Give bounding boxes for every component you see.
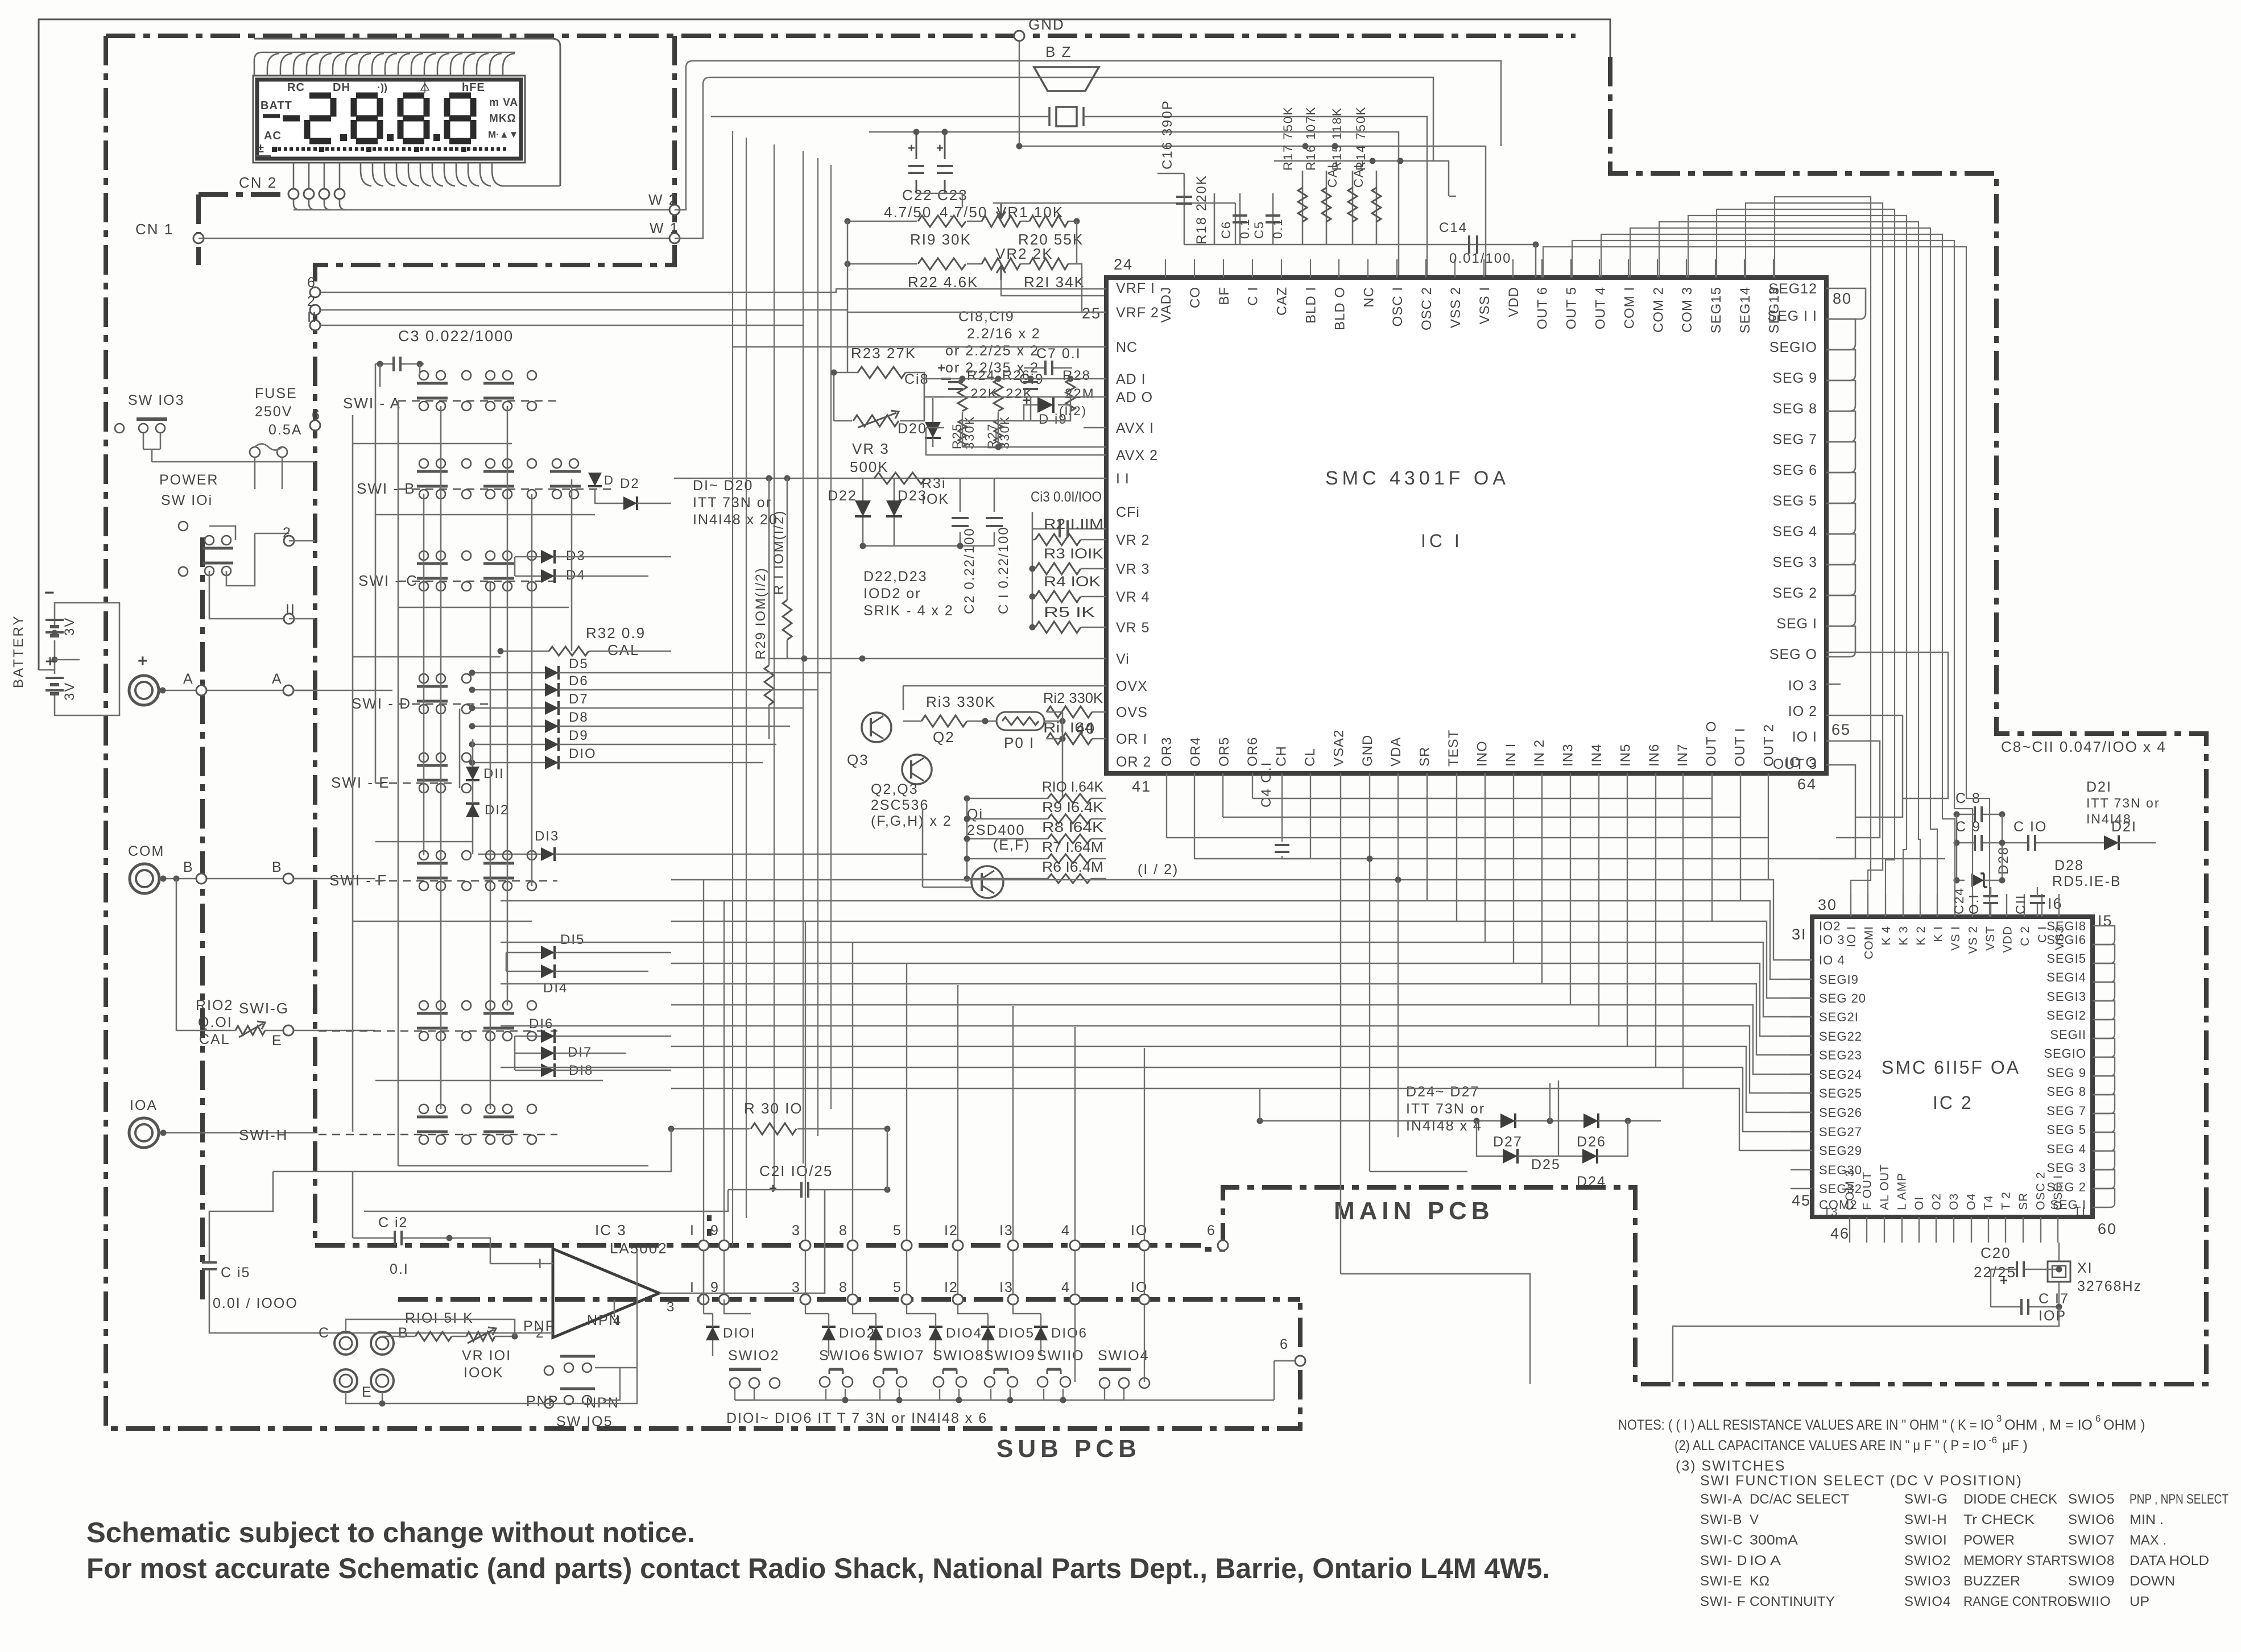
- svg-text:SEGI9: SEGI9: [1819, 972, 1859, 987]
- svg-text:K 2: K 2: [1915, 926, 1928, 946]
- wire bus y310 C16 top: [1157, 173, 1184, 188]
- svg-text:BLD O: BLD O: [1332, 287, 1347, 330]
- svg-text:-6: -6: [1988, 1435, 1997, 1446]
- border main pcb: [1201, 57, 2206, 1384]
- svg-text:SW IOi: SW IOi: [161, 492, 213, 508]
- svg-text:SEG 2: SEG 2: [1772, 585, 1817, 601]
- svg-text:D23: D23: [898, 488, 927, 504]
- svg-text:SWIO6: SWIO6: [2068, 1512, 2115, 1527]
- svg-text:CO: CO: [1188, 287, 1203, 308]
- svg-text:300mA: 300mA: [1750, 1533, 1798, 1548]
- wire I1 row: [674, 478, 1106, 479]
- diode D8: [545, 719, 559, 733]
- chip IC2 SMC 6115F 0A box: [1812, 917, 2093, 1217]
- resistor R17 750K: [1302, 171, 1304, 245]
- svg-text:A: A: [183, 671, 194, 687]
- svg-text:Vi: Vi: [1116, 651, 1130, 667]
- svg-text:C14: C14: [1439, 220, 1467, 235]
- svg-text:RIOI 5I K: RIOI 5I K: [405, 1310, 474, 1326]
- svg-text:W 2: W 2: [648, 191, 678, 208]
- border sub pcb: [398, 1297, 1300, 1302]
- wire VRF rails: [847, 221, 1077, 372]
- svg-text:IC I: IC I: [1421, 531, 1463, 551]
- svg-text:BF: BF: [1217, 287, 1232, 305]
- svg-text:OSC 2: OSC 2: [2035, 1171, 2048, 1210]
- svg-text:COM 3: COM 3: [1680, 287, 1695, 333]
- svg-text:C I: C I: [2036, 926, 2049, 943]
- svg-text:P0 I: P0 I: [1004, 734, 1035, 751]
- pot VR3 500K: [853, 415, 899, 427]
- svg-text:CII: CII: [2013, 895, 2028, 914]
- diode D13: [541, 847, 555, 861]
- svg-text:AVX 2: AVX 2: [1116, 448, 1158, 463]
- svg-text:R22 4.6K: R22 4.6K: [908, 274, 978, 291]
- wire bus y283 to R15 R14 tops: [1274, 161, 1456, 196]
- svg-text:45: 45: [1792, 1192, 1811, 1209]
- svg-text:SWIO2: SWIO2: [1904, 1553, 1951, 1568]
- svg-text:3I: 3I: [1792, 926, 1807, 943]
- svg-text:GND: GND: [1028, 16, 1065, 33]
- svg-text:46: 46: [1830, 1225, 1850, 1242]
- svg-text:3: 3: [1996, 1413, 2002, 1424]
- svg-text:SEG 8: SEG 8: [1772, 401, 1817, 417]
- svg-text:5: 5: [893, 1223, 902, 1239]
- CN2 connector: [288, 189, 299, 199]
- diode D19: [1037, 397, 1053, 413]
- potentiometer VR2: [982, 258, 1020, 270]
- resistor R22 4.6K: [847, 263, 1077, 265]
- svg-text:OUT 5: OUT 5: [1564, 287, 1580, 329]
- svg-text:CN 1: CN 1: [135, 221, 173, 238]
- svg-text:C i5: C i5: [221, 1265, 250, 1281]
- svg-text:ITT 73N or: ITT 73N or: [693, 495, 772, 511]
- svg-text:BUZZER: BUZZER: [1963, 1574, 2020, 1589]
- svg-text:2SD400: 2SD400: [967, 822, 1025, 838]
- svg-text:OVS: OVS: [1116, 705, 1148, 721]
- svg-text:VRF 2: VRF 2: [1116, 305, 1159, 321]
- svg-text:IN3: IN3: [1561, 744, 1576, 767]
- IC1 right IO wires: [1826, 652, 1948, 798]
- svg-text:SR: SR: [2017, 1193, 2030, 1210]
- svg-text:Schematic subject to change wi: Schematic subject to change without noti…: [86, 1517, 695, 1549]
- left mid vertical bus: [732, 131, 733, 1245]
- svg-text:TEST: TEST: [1446, 730, 1461, 767]
- svg-text:SEGI5: SEGI5: [2046, 951, 2086, 966]
- svg-text:I2: I2: [944, 1223, 958, 1239]
- svg-text:OHM ): OHM ): [2103, 1417, 2145, 1433]
- wire matrix verticals: [352, 415, 354, 1132]
- svg-text:R2I 34K: R2I 34K: [1024, 274, 1085, 291]
- svg-text:AVX I: AVX I: [1116, 420, 1154, 436]
- svg-text:80: 80: [1833, 290, 1852, 307]
- svg-text:3: 3: [667, 1299, 675, 1315]
- svg-text:OR5: OR5: [1217, 737, 1232, 767]
- svg-text:OUT O: OUT O: [1704, 721, 1719, 767]
- crystal X1 32768Hz: [2048, 1261, 2070, 1282]
- diode D18: [541, 1063, 555, 1077]
- svg-text:65: 65: [1831, 721, 1851, 738]
- diode D4: [541, 569, 555, 583]
- svg-text:IN4I48 x 20: IN4I48 x 20: [693, 512, 778, 528]
- svg-text:SWI-H: SWI-H: [1904, 1512, 1948, 1527]
- svg-text:SEGI8: SEGI8: [2046, 919, 2086, 933]
- svg-text:OUT I: OUT I: [1733, 727, 1748, 767]
- capacitor C17 10P: [2020, 1299, 2023, 1315]
- svg-text:+: +: [937, 361, 946, 376]
- svg-text:SEG I: SEG I: [1776, 616, 1817, 632]
- svg-text:NC: NC: [1361, 287, 1376, 308]
- wires GND VDA verticals lower: [1370, 859, 1467, 1171]
- IC1 right SEG stub loops: [1826, 288, 1866, 319]
- resistor R20 55K: [1029, 216, 1068, 227]
- resistor R14 750K: [1376, 171, 1378, 245]
- svg-text:OSC 2: OSC 2: [1419, 287, 1434, 330]
- svg-text:or 2.2/25 x 2: or 2.2/25 x 2: [945, 343, 1039, 359]
- svg-text:SUB PCB: SUB PCB: [997, 1435, 1141, 1463]
- switch row SW1-G: [319, 1030, 557, 1032]
- svg-text:0.01/100: 0.01/100: [1449, 251, 1511, 266]
- svg-text:VR 3: VR 3: [1116, 561, 1150, 577]
- svg-text:C I: C I: [1246, 287, 1261, 306]
- svg-text:SEG23: SEG23: [1819, 1048, 1862, 1062]
- svg-text:Ri2 330K: Ri2 330K: [1043, 690, 1103, 706]
- svg-text:RD5.IE-B: RD5.IE-B: [2052, 873, 2122, 889]
- svg-text:DIO: DIO: [569, 746, 597, 761]
- wires AD1/AD0 rows: [924, 378, 1106, 380]
- svg-text:4: 4: [1061, 1223, 1070, 1239]
- svg-text:DOWN: DOWN: [2130, 1574, 2175, 1589]
- resistor R31 10K: [874, 473, 925, 484]
- svg-text:D22: D22: [828, 488, 857, 504]
- svg-text:POWER: POWER: [1963, 1533, 2015, 1548]
- svg-text:SEG 9: SEG 9: [1772, 370, 1817, 386]
- svg-text:2SC536: 2SC536: [871, 797, 929, 813]
- svg-text:IN7: IN7: [1675, 744, 1690, 767]
- resistor R102 0.01 CAL: [176, 879, 235, 1030]
- svg-text:COM 3: COM 3: [1843, 1169, 1857, 1210]
- svg-text:MKΩ: MKΩ: [489, 113, 516, 125]
- diode DIO6: [1034, 1327, 1048, 1340]
- svg-text:R17 750K: R17 750K: [1281, 106, 1295, 171]
- svg-text:DATA HOLD: DATA HOLD: [2130, 1553, 2209, 1568]
- svg-text:IO I: IO I: [1792, 729, 1817, 745]
- svg-text:Tr CHECK: Tr CHECK: [1963, 1512, 2035, 1527]
- svg-text:C22: C22: [902, 187, 933, 204]
- svg-text:22K: 22K: [970, 386, 998, 401]
- svg-text:D2: D2: [620, 476, 640, 491]
- svg-text:IOA: IOA: [130, 1098, 158, 1113]
- bus horizontals mid page: [1252, 798, 1712, 799]
- svg-text:FUSE: FUSE: [255, 386, 297, 401]
- svg-text:D4: D4: [566, 568, 586, 583]
- svg-text:32768Hz: 32768Hz: [2077, 1278, 2142, 1294]
- svg-text:Ri3 330K: Ri3 330K: [926, 693, 996, 710]
- svg-text:DIODE CHECK: DIODE CHECK: [1963, 1492, 2057, 1507]
- svg-text:XI: XI: [2077, 1260, 2093, 1276]
- svg-text:D3: D3: [566, 548, 586, 564]
- diode D9: [545, 738, 559, 751]
- diode D5: [545, 666, 559, 680]
- svg-text:RIO2: RIO2: [196, 997, 233, 1013]
- svg-text:DIO5: DIO5: [998, 1326, 1035, 1341]
- svg-text:C I 0.22/100: C I 0.22/100: [996, 526, 1011, 614]
- svg-text:B: B: [272, 859, 283, 875]
- svg-text:R16 107K: R16 107K: [1304, 106, 1318, 171]
- svg-text:V: V: [1750, 1512, 1759, 1527]
- svg-text:IN4: IN4: [1589, 744, 1605, 767]
- bus horizontal NC row: [733, 346, 1106, 347]
- capacitor C23: [944, 132, 946, 193]
- svg-text:RC: RC: [287, 81, 305, 94]
- diode D2: [623, 496, 637, 510]
- svg-text:AD I: AD I: [1116, 371, 1146, 387]
- svg-text:I6: I6: [2048, 895, 2063, 912]
- svg-text:DI6: DI6: [529, 1016, 553, 1032]
- svg-text:T3: T3: [1824, 1206, 1838, 1219]
- svg-text:+: +: [769, 1181, 778, 1196]
- svg-text:VRF I: VRF I: [1116, 280, 1155, 296]
- svg-text:SEGII: SEGII: [2050, 1028, 2086, 1042]
- svg-text:DI~ D20: DI~ D20: [693, 478, 753, 494]
- svg-text:SWIO6: SWIO6: [819, 1348, 871, 1364]
- svg-text:C2 0.22/100: C2 0.22/100: [962, 527, 977, 614]
- svg-text:IOD2 or: IOD2 or: [863, 586, 921, 602]
- svg-text:DIOI: DIOI: [723, 1326, 755, 1341]
- svg-text:C IO: C IO: [2013, 819, 2047, 835]
- wire matrix horizontals: [353, 443, 512, 445]
- diode D27: [1500, 1113, 1515, 1128]
- svg-text:IO 4: IO 4: [1819, 953, 1845, 967]
- svg-text:VST: VST: [1984, 926, 1997, 951]
- svg-text:SWIO7: SWIO7: [2068, 1533, 2115, 1548]
- svg-text:0.1: 0.1: [1271, 218, 1285, 239]
- svg-text:D26: D26: [1577, 1134, 1606, 1150]
- svg-text:IO I: IO I: [1845, 926, 1858, 947]
- svg-text:INO: INO: [1474, 740, 1490, 767]
- op-amp IC3 LA5002: [553, 1249, 659, 1338]
- svg-text:C6: C6: [1219, 221, 1233, 239]
- svg-text:DH: DH: [333, 81, 350, 94]
- capacitor C1 0.22/100: [994, 478, 995, 546]
- svg-text:C: C: [319, 1325, 330, 1341]
- svg-text:SWIIO: SWIIO: [1037, 1348, 1085, 1364]
- svg-text:SMC 4301F OA: SMC 4301F OA: [1325, 467, 1510, 489]
- diode D6: [545, 683, 559, 697]
- svg-text:MEMORY START: MEMORY START: [1963, 1553, 2069, 1568]
- svg-text:VSA2: VSA2: [1331, 730, 1346, 767]
- svg-text:VDA: VDA: [1388, 737, 1404, 767]
- svg-text:SEG O: SEG O: [1769, 647, 1817, 663]
- svg-text:SWI- F: SWI- F: [1700, 1594, 1746, 1609]
- svg-text:DII: DII: [483, 766, 505, 781]
- svg-text:0.5A: 0.5A: [268, 422, 302, 438]
- diode D15: [541, 946, 555, 959]
- svg-text:C 2: C 2: [2019, 926, 2032, 946]
- svg-text:IO A: IO A: [1750, 1553, 1781, 1568]
- svg-text:MAX .: MAX .: [2130, 1533, 2166, 1548]
- terminal E2: [371, 1369, 394, 1392]
- svg-text:OSC I: OSC I: [1390, 287, 1405, 326]
- svg-text:For most accurate Schematic (a: For most accurate Schematic (and parts) …: [86, 1552, 1550, 1584]
- svg-text:O3: O3: [1948, 1193, 1961, 1210]
- svg-text:60: 60: [2098, 1220, 2117, 1237]
- svg-text:TI: TI: [2074, 1205, 2086, 1218]
- svg-text:ITT 73N or: ITT 73N or: [2086, 796, 2160, 810]
- svg-text:D24~ D27: D24~ D27: [1406, 1084, 1479, 1100]
- svg-text:SWI FUNCTION SELECT (DC V: SWI FUNCTION SELECT (DC V POSITION): [1700, 1473, 2023, 1489]
- svg-text:IOP: IOP: [2039, 1308, 2066, 1324]
- svg-text:B Z: B Z: [1045, 43, 1072, 60]
- svg-text:IO 3: IO 3: [1819, 933, 1845, 947]
- svg-text:SWI-B: SWI-B: [1700, 1512, 1742, 1527]
- svg-text:+: +: [46, 652, 56, 670]
- svg-text:CONTINUITY: CONTINUITY: [1750, 1594, 1835, 1609]
- svg-text:PNP: PNP: [526, 1393, 559, 1409]
- node W1: [669, 233, 680, 243]
- svg-text:·)): ·)): [377, 82, 387, 93]
- svg-text:D6: D6: [569, 673, 589, 689]
- svg-text:D2I: D2I: [2111, 819, 2137, 835]
- wire Vi row: [769, 658, 1106, 660]
- svg-text:C7 0.I: C7 0.I: [1036, 346, 1081, 362]
- svg-text:PNP , NPN SELECT: PNP , NPN SELECT: [2130, 1492, 2228, 1507]
- svg-text:I3: I3: [999, 1280, 1014, 1295]
- svg-text:C16 390P: C16 390P: [1160, 100, 1175, 169]
- potentiometer VR1: [982, 216, 1020, 227]
- border outer dash-dot: [106, 36, 1300, 1429]
- svg-text:CAZ: CAZ: [1275, 287, 1290, 316]
- svg-text:SEG 5: SEG 5: [1772, 493, 1817, 509]
- svg-text:SEG29: SEG29: [1819, 1144, 1862, 1158]
- svg-text:OUT 3: OUT 3: [1773, 756, 1817, 772]
- svg-text:Q3: Q3: [847, 751, 869, 768]
- svg-text:D2I: D2I: [2086, 779, 2112, 795]
- switch SW105: [560, 1355, 595, 1358]
- pot VR101 100K: [466, 1332, 495, 1341]
- diode D23: [894, 478, 895, 546]
- svg-text:CI8,CI9: CI8,CI9: [958, 309, 1015, 325]
- border display pcb: [106, 34, 1576, 38]
- diode D16: [541, 1029, 555, 1043]
- svg-text:4: 4: [1061, 1280, 1070, 1295]
- svg-text:D5: D5: [569, 656, 589, 672]
- svg-text:IOOK: IOOK: [464, 1365, 504, 1381]
- diode D22: [862, 478, 864, 546]
- svg-text:SEG 5: SEG 5: [2046, 1123, 2086, 1137]
- svg-text:CN 2: CN 2: [239, 174, 277, 191]
- diode D14: [541, 964, 555, 978]
- svg-text:8: 8: [839, 1280, 848, 1295]
- svg-text:SEG I I: SEG I I: [1767, 308, 1817, 324]
- svg-text:MAIN PCB: MAIN PCB: [1334, 1197, 1494, 1225]
- terminal B: [371, 1332, 394, 1355]
- svg-text:D i9: D i9: [1039, 412, 1068, 427]
- wire CN1-W1: [199, 238, 675, 239]
- svg-text:OHM , M = IO: OHM , M = IO: [2004, 1417, 2093, 1433]
- svg-text:T 2: T 2: [2000, 1191, 2013, 1210]
- svg-text:Q.OI: Q.OI: [198, 1015, 233, 1030]
- svg-text:SWIO8: SWIO8: [2068, 1553, 2115, 1568]
- diode DIO5: [981, 1327, 995, 1340]
- svg-text:9: 9: [710, 1223, 720, 1239]
- svg-text:DIO3: DIO3: [886, 1326, 923, 1341]
- svg-text:C24: C24: [1951, 887, 1966, 914]
- svg-text:C I7: C I7: [2039, 1291, 2069, 1307]
- svg-text:SEG 6: SEG 6: [1772, 462, 1817, 478]
- svg-text:SWI-G: SWI-G: [1904, 1492, 1948, 1507]
- svg-text:IO 2: IO 2: [1788, 703, 1817, 719]
- svg-text:2: 2: [307, 293, 316, 309]
- svg-text:D20: D20: [898, 421, 927, 437]
- svg-text:SWI-A: SWI-A: [1700, 1492, 1742, 1507]
- transistor Q3: [862, 713, 891, 742]
- svg-text:C3 0.022/1000: C3 0.022/1000: [398, 328, 514, 345]
- svg-text:LA5002: LA5002: [610, 1240, 668, 1257]
- svg-text:SWI- D: SWI- D: [1700, 1553, 1747, 1568]
- resistor R19 30K: [847, 221, 1077, 222]
- svg-text:25: 25: [1082, 305, 1101, 322]
- svg-text:CL: CL: [1303, 748, 1318, 767]
- svg-text:SWIO2: SWIO2: [728, 1348, 780, 1364]
- svg-text:SWI-C: SWI-C: [1700, 1533, 1743, 1548]
- svg-text:DIO2: DIO2: [839, 1326, 875, 1341]
- svg-text:OUT 2: OUT 2: [1761, 724, 1776, 767]
- svg-text:R32 0.9: R32 0.9: [586, 624, 646, 641]
- capacitor C6 0.1: [1239, 193, 1241, 245]
- IC2 right SEG stub loops: [2093, 926, 2115, 945]
- ic1 top pin loops to right bus: [1543, 247, 1990, 894]
- svg-text:C5: C5: [1252, 221, 1266, 239]
- svg-text:I2: I2: [944, 1280, 958, 1295]
- diode D1: [588, 473, 602, 486]
- svg-text:SWIO4: SWIO4: [1904, 1594, 1951, 1609]
- svg-text:D25: D25: [1531, 1157, 1561, 1173]
- transistor Q1: [971, 866, 1003, 898]
- svg-text:Ci3 0.0I/IOO: Ci3 0.0I/IOO: [1031, 489, 1102, 505]
- svg-text:CFi: CFi: [1116, 504, 1140, 520]
- svg-text:C i2: C i2: [378, 1215, 408, 1231]
- svg-text:SWIOI: SWIOI: [1904, 1533, 1948, 1548]
- svg-text:SEG2I: SEG2I: [1819, 1010, 1859, 1024]
- svg-text:R5 IK: R5 IK: [1044, 605, 1095, 620]
- wire bus y257 to VSS1: [1019, 146, 1486, 278]
- svg-text:IN5: IN5: [1618, 744, 1633, 767]
- svg-text:3V: 3V: [62, 617, 77, 636]
- svg-text:OR3: OR3: [1159, 737, 1175, 767]
- IC1 top pin stubs: [1165, 259, 1166, 278]
- wires D24-D27: [1260, 1120, 1661, 1121]
- svg-text:COM 2: COM 2: [1651, 287, 1666, 333]
- svg-text:5: 5: [893, 1280, 902, 1295]
- svg-text:6: 6: [1280, 1336, 1289, 1352]
- svg-text:BLD I: BLD I: [1304, 287, 1319, 324]
- svg-text:SWI - A: SWI - A: [343, 395, 401, 412]
- node 11: [209, 571, 289, 619]
- svg-text:D27: D27: [1493, 1134, 1523, 1150]
- svg-text:D8: D8: [569, 710, 589, 725]
- bus wires below IC1: [1166, 773, 1167, 838]
- capacitor C22: [916, 132, 917, 193]
- svg-text:II: II: [307, 309, 317, 325]
- svg-text:COM I: COM I: [1622, 287, 1637, 329]
- capacitor C16 390P: [1184, 173, 1185, 245]
- svg-text:VR IOI: VR IOI: [462, 1348, 511, 1364]
- svg-text:VS3: VS3: [2053, 926, 2066, 950]
- svg-text:SEG27: SEG27: [1819, 1125, 1862, 1139]
- svg-text:64: 64: [1797, 776, 1817, 793]
- op-chip IC1 SMC 4301F 0A box: [1106, 278, 1826, 773]
- wire BZ left: [711, 116, 1049, 118]
